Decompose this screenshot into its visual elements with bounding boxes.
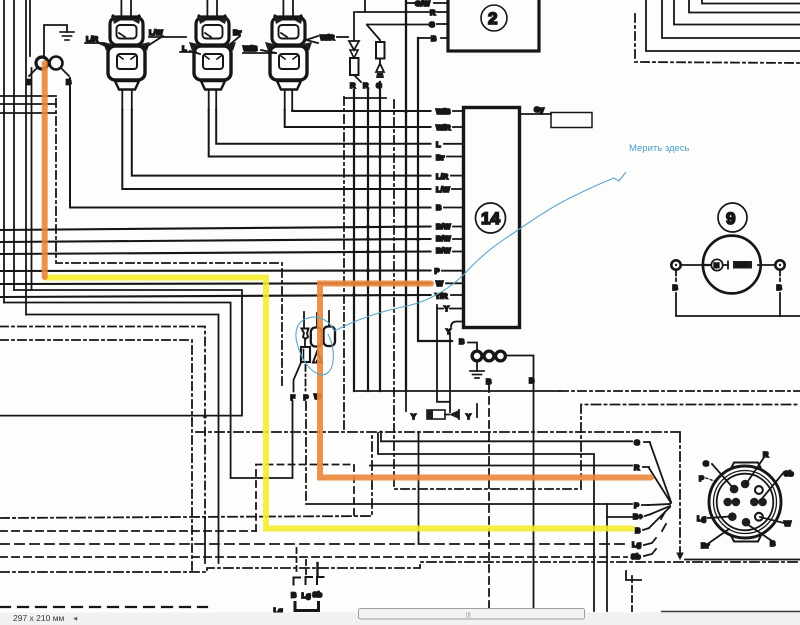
svg-text:P: P [304,393,309,402]
wire coil1 left to L/W pin [122,110,430,189]
svg-text:G/W: G/W [415,0,431,8]
svg-text:R: R [634,463,640,472]
terminal ring left [36,57,48,69]
wire terminal to B label right [61,68,69,76]
svg-text:Y: Y [411,412,416,421]
ground symbol top-left [30,0,74,58]
wire B/W bus 3 [0,252,431,255]
svg-text:◄: ◄ [72,616,78,623]
small connector cluster F P W [294,311,336,392]
svg-text:Gy: Gy [534,105,545,114]
svg-text:W/B: W/B [243,44,258,53]
dashed vertical x632 bottom [631,576,633,611]
svg-text:L/R: L/R [436,172,449,181]
wire bus y390 [356,390,560,392]
svg-text:B/W: B/W [436,222,452,231]
svg-text:B+: B+ [633,512,643,521]
heavy vertical x418 [418,38,452,341]
wire Y vertical to diode [437,309,450,402]
circled 2 [481,5,507,31]
blue annotation loop [296,172,626,375]
pin hook Y bottom of box14 [451,322,462,328]
svg-text:B/W: B/W [436,234,452,243]
wire coil2 left to Br pin [209,110,431,157]
wire stub y104 [0,103,56,105]
svg-text:OFF: OFF [736,263,748,269]
leader L/W [146,36,163,47]
svg-text:P: P [634,501,639,510]
junction dots grid [352,110,420,297]
svg-text:B: B [459,337,465,346]
svg-text:Lg: Lg [302,591,312,600]
svg-text:R: R [350,81,356,90]
svg-text:Sb: Sb [784,469,794,478]
round connector 8pin [709,463,781,542]
svg-text:Lg: Lg [632,540,642,549]
heavy vertical x406 [405,0,407,391]
svg-text:2: 2 [488,9,497,28]
wire R to box2 [356,11,429,13]
wire F drop [203,415,207,419]
wire unit9 bottom [675,271,677,282]
svg-text:297 x 210 мм: 297 x 210 мм [13,613,65,623]
wires unit9 [681,264,703,266]
connector bar Gy [551,113,592,128]
svg-text:B: B [436,203,442,212]
wire B+ [607,516,632,518]
svg-text:W/B: W/B [436,107,451,116]
triple ring connectors [472,351,482,361]
wire stub y113 [0,112,56,114]
svg-text:P: P [435,267,440,276]
dashed Sb bus [0,556,627,558]
wire coil3 left to W/R pin [285,110,431,127]
svg-text:W/R: W/R [320,33,335,42]
svg-text:9: 9 [726,209,735,228]
wire loop y293 [4,303,293,479]
svg-text:Lg: Lg [697,514,707,523]
wire dash-dot x205 [0,327,205,519]
svg-text:B: B [291,591,297,600]
svg-text:L/W: L/W [436,185,451,194]
wire y454 [378,433,594,611]
svg-text:W: W [436,279,444,288]
leader W/R [306,36,318,43]
corner mark bottom right of converge [626,571,641,580]
svg-text:G: G [429,20,435,29]
svg-text:Br: Br [701,541,709,550]
spark coil connector 2 [189,0,236,110]
wire B/W bus 2 [0,239,431,242]
fuse R1 [349,0,365,82]
svg-text:B: B [777,283,783,292]
svg-text:F: F [291,393,296,402]
highlight yellow path [46,278,632,529]
wire left edge vertical 1 [3,0,5,303]
dashed wire x489 [488,385,490,611]
svg-text:W: W [784,519,792,528]
dash-dot path y518 [0,433,372,518]
svg-text:Sb: Sb [313,590,323,599]
ground under rings [470,361,484,378]
grid vertical from fuse R2 [367,90,369,391]
svg-text:G: G [634,438,640,447]
wire B terminal drop right [70,78,431,208]
box unit 2 [448,0,539,51]
wire rings to x534 [506,356,534,613]
status bar [0,609,800,625]
wire coil2 right to L pin [216,110,430,144]
wire coil3 right to W/B pin [292,110,430,111]
grid vertical from fuse R1 [353,90,355,391]
svg-text:G: G [703,459,709,468]
highlight orange path 2 [320,284,651,478]
wire B/W bus 1 [0,227,431,231]
svg-text:Sb: Sb [631,552,641,561]
arrow on dash-dot [677,553,683,559]
wire left edge vertical 2 [13,0,15,290]
dashed y531 left [0,530,256,532]
svg-text:B: B [673,283,679,292]
wire dash-dot x192 [0,340,192,573]
svg-text:Мерить здесь: Мерить здесь [629,143,690,154]
wire vertical x418 lower [418,432,420,544]
wire W bus [0,282,431,285]
spark coil connector 3 [265,0,312,110]
dash-dot bus y562-572 [0,562,800,572]
nested corner wires top right [646,0,800,51]
wire P bus [0,269,431,272]
small ticks near convergence [661,512,665,519]
wire G line [381,432,632,442]
circled 14 [476,203,506,233]
wire terminal drop [31,68,33,290]
svg-text:B/W: B/W [436,246,452,255]
dashed rect mid [256,465,354,532]
wire G to box2 [367,24,428,26]
diode assembly Y [406,391,477,421]
svg-text:14: 14 [481,209,500,228]
fuse R2 [367,25,385,78]
wire B to rings [468,343,477,351]
wire dash-dot x56 [56,99,282,388]
unit 9 motor [703,203,761,293]
grid vertical from fuse G [379,82,381,391]
dash-dot bus y432 [196,431,680,433]
dash-dot corner x581 [581,405,800,490]
svg-text:L/W: L/W [149,28,164,37]
svg-text:Br: Br [436,153,444,162]
wire terminal to B label left [29,68,37,76]
terminal left unit9 [671,260,680,269]
svg-text:M: M [714,263,719,270]
wire coil1 right to L/R pin [132,110,431,176]
wire P dashed drop [305,402,307,504]
svg-text:Y/R: Y/R [435,292,448,301]
wire Gy [520,113,551,115]
box unit 14 [464,108,520,328]
svg-text:L: L [436,140,441,149]
terminal right unit9 [775,260,784,269]
wire dash-dot right top [635,14,800,63]
dashed Lg bus [0,543,628,545]
leader L [180,51,196,53]
dashed bottom left [0,606,207,608]
leader L/R [85,42,104,44]
wire G/W to box2 [406,2,415,4]
svg-text:B: B [431,34,437,43]
wire y97 fuse area [345,97,386,99]
terminal ring right [50,57,63,70]
svg-text:|||: ||| [466,613,471,619]
svg-text:R: R [430,8,436,17]
svg-text:P: P [699,474,704,483]
svg-text:Y: Y [444,304,449,313]
leader Br [228,36,240,46]
wire left edge vertical 3 [25,0,27,315]
wire stub y96 [0,95,56,97]
leader W/B [261,50,276,53]
wire Y/R bus2 [0,295,431,297]
drop wires B Lg Sb bottom [296,548,298,574]
svg-text:Y: Y [466,412,471,421]
wire loop y315 [26,315,219,564]
wire x607 [606,504,608,611]
spark coil connector 1 [103,0,150,110]
dashed box around fuses [343,97,345,432]
wire B to box2 [441,37,448,39]
svg-text:W/R: W/R [436,123,451,132]
bracket bottom [295,603,319,611]
wire under connector [685,559,800,561]
svg-text:B: B [635,526,641,535]
wire R line [370,465,632,467]
svg-text:B: B [66,78,72,87]
wire loop y304 [0,290,242,416]
dash-dot x680 [679,433,681,552]
highlight orange path 1 [45,63,651,478]
svg-text:B: B [26,78,32,87]
svg-text:R: R [363,81,369,90]
